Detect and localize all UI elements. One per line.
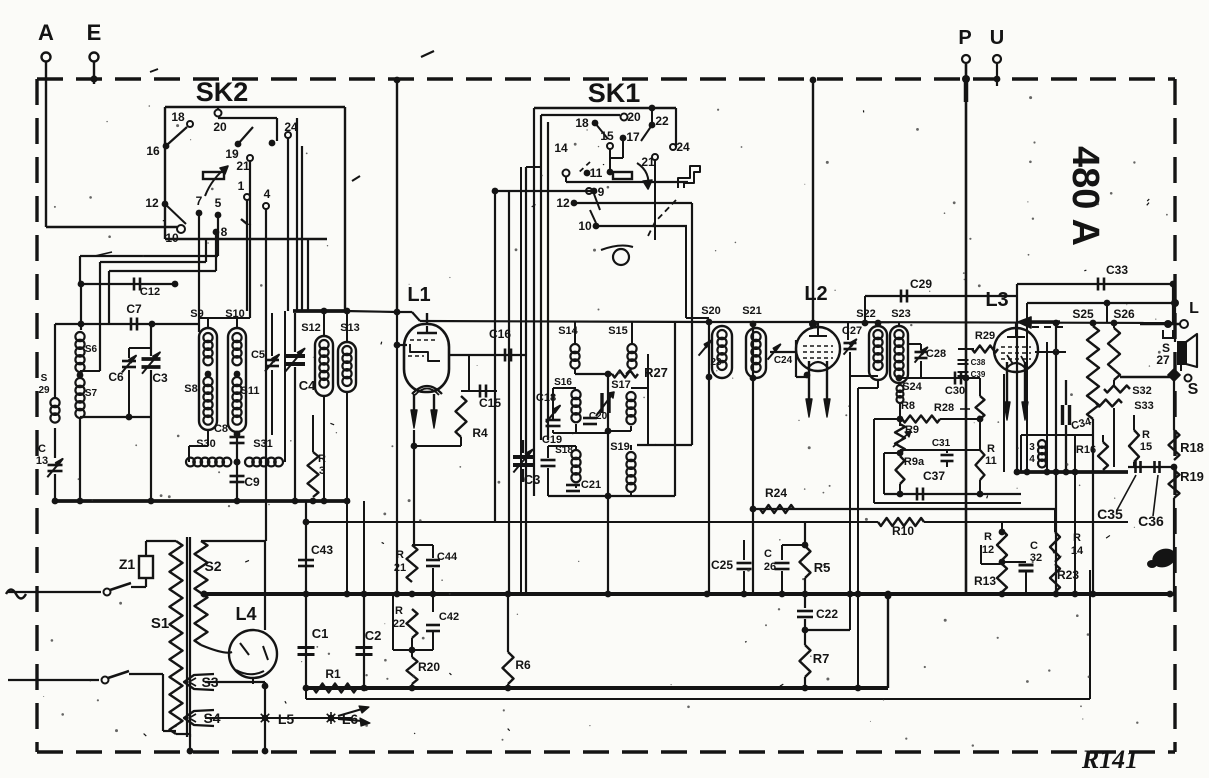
svg-text:C8: C8 <box>214 423 228 435</box>
svg-text:S21: S21 <box>742 305 762 317</box>
svg-text:C18: C18 <box>536 392 556 404</box>
svg-text:5: 5 <box>215 196 222 210</box>
svg-text:16: 16 <box>146 144 160 158</box>
svg-text:14: 14 <box>1071 545 1084 557</box>
svg-text:S: S <box>41 373 48 384</box>
svg-text:C3: C3 <box>524 472 541 487</box>
svg-text:1: 1 <box>238 179 245 193</box>
svg-text:L: L <box>1189 300 1199 317</box>
svg-text:R141: R141 <box>1081 745 1138 773</box>
svg-text:A: A <box>38 20 54 45</box>
svg-text:S24: S24 <box>902 381 922 393</box>
svg-text:C: C <box>1030 540 1038 552</box>
svg-text:C7: C7 <box>126 302 142 316</box>
svg-text:S16: S16 <box>554 377 572 388</box>
svg-text:S6: S6 <box>85 344 98 355</box>
svg-text:P: P <box>958 27 971 49</box>
svg-text:S30: S30 <box>196 438 216 450</box>
svg-text:S8: S8 <box>184 383 197 395</box>
svg-text:S33: S33 <box>1134 400 1154 412</box>
svg-text:R20: R20 <box>418 660 440 674</box>
svg-text:R: R <box>396 549 404 561</box>
svg-text:C37: C37 <box>923 469 945 483</box>
svg-text:C24: C24 <box>774 355 793 366</box>
svg-text:18: 18 <box>575 116 589 130</box>
svg-text:4: 4 <box>1029 454 1035 465</box>
svg-text:C43: C43 <box>311 543 333 557</box>
svg-text:C29: C29 <box>910 277 932 291</box>
svg-text:R23: R23 <box>1057 568 1079 582</box>
svg-text:C4: C4 <box>299 378 316 393</box>
svg-text:R4: R4 <box>472 426 488 440</box>
svg-text:R28: R28 <box>934 402 954 414</box>
svg-text:Z1: Z1 <box>119 556 136 572</box>
svg-text:R9a: R9a <box>904 456 925 468</box>
svg-text:R7: R7 <box>813 651 830 666</box>
svg-text:20: 20 <box>627 110 641 124</box>
svg-text:R8: R8 <box>901 400 915 412</box>
svg-text:C25: C25 <box>711 558 733 572</box>
svg-text:SK1: SK1 <box>588 78 641 108</box>
svg-text:C: C <box>38 443 46 455</box>
svg-text:C9: C9 <box>244 475 260 489</box>
svg-text:8: 8 <box>221 225 228 239</box>
svg-text:R5: R5 <box>814 560 831 575</box>
svg-text:C39: C39 <box>971 370 986 379</box>
svg-text:L1: L1 <box>407 284 430 306</box>
svg-text:11: 11 <box>985 455 997 467</box>
svg-text:R: R <box>987 443 995 455</box>
svg-text:R18: R18 <box>1180 440 1204 455</box>
svg-text:S13: S13 <box>340 322 360 334</box>
svg-text:S17: S17 <box>611 379 631 391</box>
svg-text:21: 21 <box>641 155 655 169</box>
svg-text:C38: C38 <box>971 358 986 367</box>
svg-text:21: 21 <box>394 562 406 574</box>
svg-text:S26: S26 <box>1113 307 1135 321</box>
svg-text:R24: R24 <box>765 486 787 500</box>
svg-text:4: 4 <box>264 187 271 201</box>
svg-text:15: 15 <box>1140 441 1152 453</box>
svg-text:S7: S7 <box>85 388 98 399</box>
svg-text:18: 18 <box>171 110 185 124</box>
svg-text:S2: S2 <box>204 558 221 574</box>
svg-text:C30: C30 <box>945 385 965 397</box>
svg-text:22: 22 <box>393 618 405 630</box>
svg-text:S1: S1 <box>151 615 169 632</box>
svg-text:C36: C36 <box>1138 513 1164 529</box>
svg-text:R13: R13 <box>974 574 996 588</box>
svg-text:C5: C5 <box>251 349 265 361</box>
svg-text:S19: S19 <box>610 441 630 453</box>
svg-text:27: 27 <box>1156 353 1170 367</box>
svg-text:S25: S25 <box>1072 307 1094 321</box>
svg-text:12: 12 <box>145 196 159 210</box>
svg-text:C: C <box>764 548 772 560</box>
svg-text:C3: C3 <box>152 371 168 385</box>
svg-text:C12: C12 <box>140 286 160 298</box>
svg-text:C6: C6 <box>108 370 124 384</box>
svg-text:480 A: 480 A <box>1064 146 1106 246</box>
svg-text:9: 9 <box>598 185 605 199</box>
svg-text:R1: R1 <box>325 667 341 681</box>
svg-text:C20: C20 <box>589 411 608 422</box>
svg-text:C42: C42 <box>439 611 459 623</box>
svg-text:C31: C31 <box>932 438 951 449</box>
svg-text:21: 21 <box>236 159 250 173</box>
svg-text:10: 10 <box>578 219 592 233</box>
svg-text:U: U <box>990 27 1004 49</box>
svg-text:L2: L2 <box>804 283 827 305</box>
svg-text:C21: C21 <box>581 479 601 491</box>
svg-text:12: 12 <box>982 544 994 556</box>
svg-text:22: 22 <box>655 114 669 128</box>
svg-text:C2: C2 <box>365 628 382 643</box>
svg-text:S15: S15 <box>608 325 628 337</box>
svg-text:S31: S31 <box>253 438 273 450</box>
svg-text:23: 23 <box>710 357 722 368</box>
svg-text:S32: S32 <box>1132 385 1152 397</box>
svg-text:C28: C28 <box>926 348 946 360</box>
svg-text:R: R <box>984 531 992 543</box>
svg-text:L5: L5 <box>278 711 295 727</box>
svg-text:S20: S20 <box>701 305 721 317</box>
svg-text:C22: C22 <box>816 607 838 621</box>
svg-text:3: 3 <box>1029 442 1035 453</box>
svg-text:C44: C44 <box>437 551 458 563</box>
svg-text:S12: S12 <box>301 322 321 334</box>
svg-text:17: 17 <box>626 130 640 144</box>
svg-text:26: 26 <box>764 561 776 573</box>
svg-text:SK2: SK2 <box>196 77 249 107</box>
svg-text:20: 20 <box>213 120 227 134</box>
svg-text:C35: C35 <box>1097 506 1123 522</box>
svg-text:C33: C33 <box>1106 263 1128 277</box>
svg-text:S23: S23 <box>891 308 911 320</box>
svg-text:R6: R6 <box>515 658 531 672</box>
svg-text:13: 13 <box>36 455 48 467</box>
svg-text:C15: C15 <box>479 396 501 410</box>
svg-text:E: E <box>87 20 102 45</box>
svg-text:C1: C1 <box>312 626 329 641</box>
svg-text:15: 15 <box>600 129 614 143</box>
svg-text:R: R <box>1142 429 1150 441</box>
svg-text:R10: R10 <box>892 524 914 538</box>
svg-text:10: 10 <box>165 231 179 245</box>
svg-text:14: 14 <box>554 141 568 155</box>
svg-text:R16: R16 <box>1076 444 1096 456</box>
svg-text:11: 11 <box>590 166 603 180</box>
svg-text:R: R <box>395 605 403 617</box>
svg-text:R19: R19 <box>1180 469 1204 484</box>
svg-text:29: 29 <box>38 385 50 396</box>
svg-text:S11: S11 <box>241 385 260 397</box>
svg-text:S: S <box>1188 381 1199 398</box>
svg-text:R: R <box>1073 532 1081 544</box>
svg-text:7: 7 <box>196 194 203 208</box>
svg-text:L4: L4 <box>235 604 256 624</box>
svg-text:R29: R29 <box>975 330 995 342</box>
svg-text:12: 12 <box>556 196 570 210</box>
svg-text:L3: L3 <box>985 289 1008 311</box>
svg-text:24: 24 <box>676 140 690 154</box>
svg-text:C27: C27 <box>842 325 862 337</box>
